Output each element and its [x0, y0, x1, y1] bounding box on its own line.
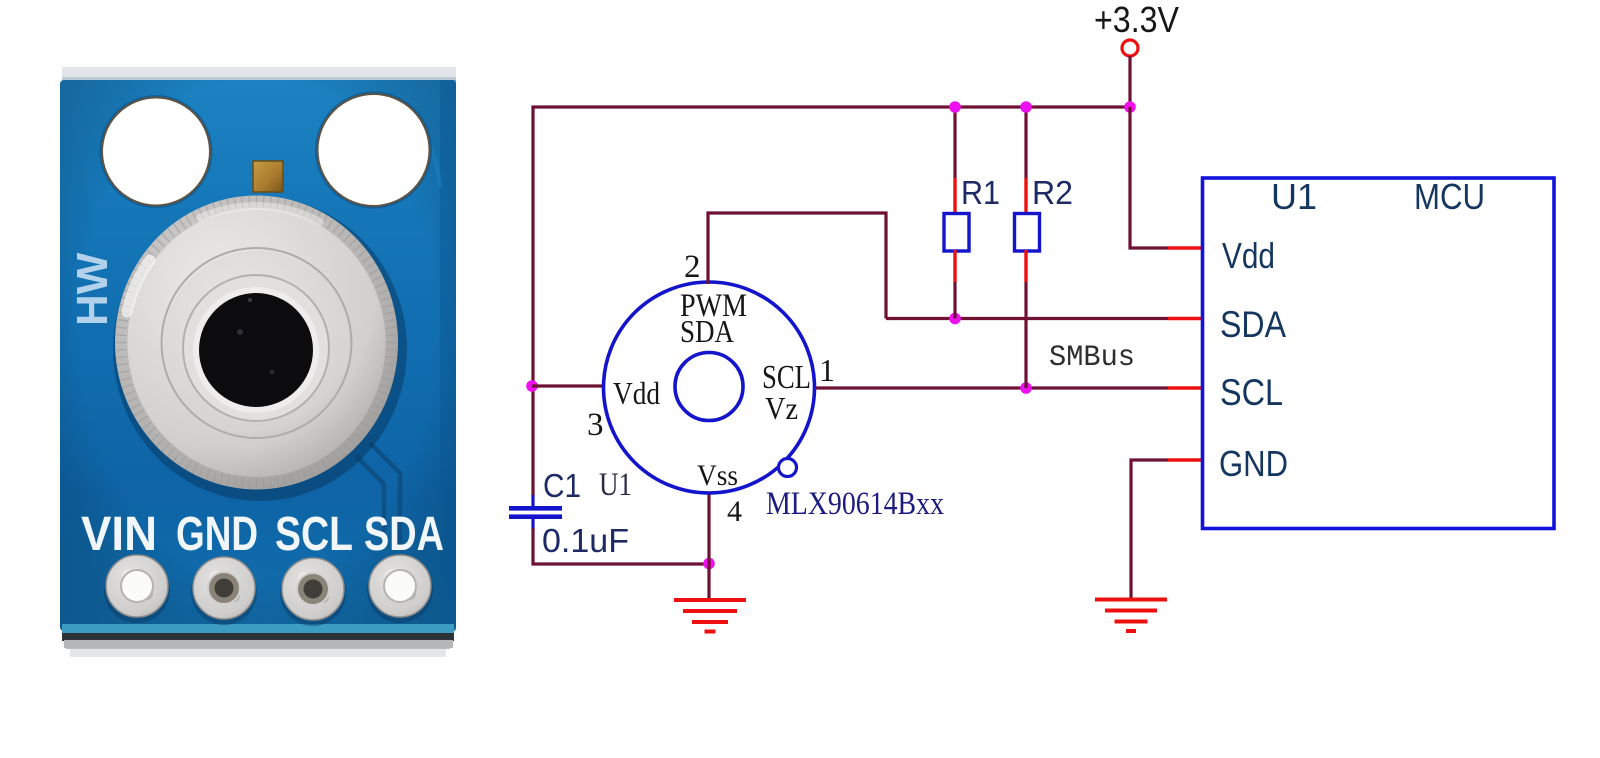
svg-text:GND: GND: [176, 507, 258, 561]
wire C1 bottom to Vss node: [533, 528, 711, 564]
label +3.3V: [1094, 0, 1179, 40]
pin label SDA (MCU): [1220, 304, 1286, 345]
pin label SDA (sensor): [680, 313, 734, 349]
label R1: [961, 174, 1000, 211]
resistor R2: [1015, 107, 1040, 388]
pin label Vss: [697, 459, 738, 492]
svg-text:VIN: VIN: [81, 507, 157, 561]
ground symbol 1: [674, 600, 746, 632]
svg-text:3: 3: [587, 407, 604, 443]
svg-text:U1: U1: [1271, 176, 1317, 217]
junction bus/+3.3V: [1124, 101, 1136, 113]
ground symbol 2: [1095, 600, 1167, 632]
svg-text:Vdd: Vdd: [1222, 235, 1275, 276]
pin stub GND (red): [1168, 458, 1202, 461]
label 0.1uF: [542, 522, 629, 559]
svg-text:R2: R2: [1032, 174, 1073, 211]
junction Vdd node: [526, 380, 538, 392]
pin label SCL (MCU): [1220, 372, 1283, 413]
pin number 2: [684, 249, 701, 285]
svg-text:Vdd: Vdd: [613, 375, 660, 411]
label C1: [543, 467, 581, 504]
svg-text:2: 2: [684, 249, 701, 285]
sensor U1 MLX90614 body (circle): [604, 282, 815, 493]
svg-text:1: 1: [819, 352, 835, 388]
label U1 (MCU refdes): [1271, 176, 1317, 217]
svg-text:SCL: SCL: [1220, 372, 1283, 413]
power +3.3V terminal: [1122, 40, 1138, 56]
wire +3.3V to MCU Vdd: [1130, 107, 1168, 248]
wire SCL net sensor pin 1 to MCU: [815, 386, 1168, 389]
svg-text:MLX90614Bxx: MLX90614Bxx: [766, 486, 944, 522]
svg-text:Vss: Vss: [697, 459, 738, 492]
resistor R1: [944, 107, 969, 319]
svg-text:SCL: SCL: [275, 507, 353, 561]
label MLX90614Bxx: [766, 486, 944, 522]
svg-text:4: 4: [727, 495, 742, 528]
label SMBus: [1049, 341, 1135, 375]
wire Vdd to sensor pin 3: [532, 384, 603, 387]
svg-text:C1: C1: [543, 467, 581, 504]
pin number 3: [587, 407, 604, 443]
MLX90614 sensor module photo: [60, 67, 456, 657]
svg-text:R1: R1: [961, 174, 1000, 211]
svg-text:MCU: MCU: [1414, 176, 1485, 217]
pin label SCL (sensor): [762, 359, 811, 396]
pin stub SDA (red): [1168, 317, 1202, 320]
junction SCL/R2: [1020, 382, 1032, 394]
svg-text:SMBus: SMBus: [1049, 341, 1135, 375]
pin label GND (MCU): [1219, 443, 1288, 484]
wire sensor pin 2 to SDA net: [708, 213, 886, 319]
svg-text:SDA: SDA: [1220, 304, 1286, 345]
svg-text:+3.3V: +3.3V: [1094, 0, 1179, 40]
pin number 1: [819, 352, 835, 388]
svg-text:HW: HW: [68, 252, 117, 326]
svg-text:SDA: SDA: [680, 313, 734, 349]
svg-text:U1: U1: [599, 467, 632, 503]
pin number 4: [727, 495, 742, 528]
junction bus/R2: [1020, 101, 1032, 113]
svg-text:0.1uF: 0.1uF: [542, 522, 629, 559]
label R2: [1032, 174, 1073, 211]
pin label Vdd (MCU): [1222, 235, 1275, 276]
capacitor C1: [509, 495, 562, 530]
pin 1 marker circle: [779, 459, 797, 477]
wire +3.3V down to bus: [1128, 56, 1131, 107]
junction bus/R1: [949, 101, 961, 113]
pin label Vz: [765, 390, 798, 426]
junction Vss node: [703, 558, 715, 570]
svg-text:SDA: SDA: [364, 507, 444, 561]
wire MCU GND to ground: [1131, 460, 1168, 598]
pin label PWM: [680, 288, 747, 324]
label MCU: [1414, 176, 1485, 217]
svg-text:Vz: Vz: [765, 390, 798, 426]
wire sensor pin 4 Vss down: [707, 493, 710, 564]
pin stub SCL (red): [1168, 386, 1202, 389]
wire SDA net to MCU: [886, 317, 1168, 320]
wire top power bus: [531, 105, 1130, 108]
wire Vss node to ground: [707, 564, 710, 599]
MCU U1 body: [1203, 178, 1555, 529]
pin label Vdd (sensor): [613, 375, 660, 411]
junction SDA/R1: [949, 313, 961, 325]
label U1 (sensor refdes): [599, 467, 632, 503]
pin stub Vdd (red): [1168, 246, 1202, 249]
svg-text:GND: GND: [1219, 443, 1288, 484]
wire left vertical Vdd bus: [531, 107, 534, 497]
